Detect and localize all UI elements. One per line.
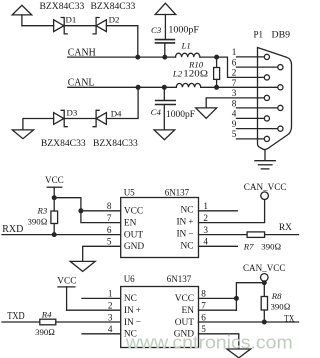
svg-text:1000pF: 1000pF [168, 26, 199, 36]
node junction CAN_VCC rail [262, 280, 267, 285]
svg-text:6: 6 [232, 57, 237, 67]
svg-text:1: 1 [108, 289, 113, 299]
svg-text:5: 5 [232, 129, 237, 139]
svg-text:C3: C3 [151, 25, 162, 35]
wire DB9 shell to earth [264, 150, 266, 160]
svg-text:VCC: VCC [45, 175, 64, 186]
pin 4 stub (U6 NC) [82, 333, 121, 335]
svg-text:7: 7 [201, 301, 206, 311]
wire VCC to U6 pin2 IN+ [67, 309, 121, 311]
svg-text:D4: D4 [111, 109, 122, 119]
power terminal CAN_VCC circle (U6) [261, 274, 269, 282]
pin 9 stub (P1) [237, 128, 279, 130]
node junction pin8/pin7 tie [234, 296, 239, 301]
resistor R8 [261, 297, 267, 311]
wire TXD to R4 [2, 321, 40, 323]
wire L2 to DB9 pin7 [201, 86, 278, 88]
svg-text:U5: U5 [124, 187, 135, 197]
svg-text:BZX84C33: BZX84C33 [93, 138, 138, 148]
power VCC (U6 section) [58, 287, 75, 310]
node junction R8/TX [262, 320, 267, 325]
svg-text:CAN_VCC: CAN_VCC [243, 263, 285, 273]
diode D2 (zener BZX84C33) [93, 18, 106, 34]
pin 4 stub (P1) [237, 117, 265, 119]
wire D3 cathode to D4 cathode [64, 118, 96, 120]
ground E2 (earth triangle up, above C3) [155, 3, 176, 39]
svg-text:1: 1 [203, 201, 208, 211]
svg-text:L2: L2 [172, 69, 183, 79]
wire CAN_VCC circle down to R8 [263, 281, 265, 296]
resistor R4 [40, 319, 56, 325]
node junction R10/CANH [214, 55, 219, 60]
svg-text:BZX84C33: BZX84C33 [40, 1, 85, 11]
svg-text:IN +: IN + [176, 218, 193, 228]
svg-text:R10: R10 [188, 60, 204, 70]
wire R8 to TX line [263, 310, 265, 322]
op-amp U6 optocoupler 6N137 box [121, 287, 199, 348]
svg-text:120Ω: 120Ω [183, 70, 208, 80]
svg-text:9: 9 [232, 119, 237, 129]
svg-text:8: 8 [107, 201, 112, 211]
svg-text:VCC: VCC [57, 275, 76, 286]
P1 pin circles left column [264, 54, 269, 141]
pin 8 stub (P1) [237, 107, 279, 109]
pin 1 stub (P1) [237, 56, 265, 58]
svg-text:NC: NC [180, 242, 193, 252]
diode D1 (zener BZX84C33) [54, 18, 68, 34]
P1 pin circles right column [278, 65, 283, 132]
svg-text:CAN_VCC: CAN_VCC [244, 182, 287, 192]
connector P1 DB9 body [258, 48, 292, 150]
svg-text:3: 3 [108, 312, 113, 322]
op-amp U5 optocoupler 6N137 box [121, 198, 199, 258]
inductor L2 [176, 83, 200, 87]
pin 5 stub (P1) [237, 138, 265, 140]
capacitor C3 [156, 40, 175, 58]
svg-text:R3: R3 [37, 205, 48, 215]
pin 4 stub (U5 NC) [199, 245, 238, 247]
svg-text:2: 2 [232, 68, 237, 78]
wire L1 to CANH corner, down to DB9 pin2 [200, 57, 265, 77]
svg-text:EN: EN [182, 306, 195, 316]
svg-text:1000pF: 1000pF [166, 110, 195, 120]
svg-text:D2: D2 [109, 15, 120, 25]
pin 1 stub (U5 NC) [199, 210, 238, 212]
svg-text:IN −: IN − [176, 230, 193, 240]
node junction C3/CANH [162, 55, 167, 60]
diode D4 (zener BZX84C33) [93, 110, 106, 126]
svg-text:IN +: IN + [124, 306, 141, 316]
svg-text:U6: U6 [124, 274, 135, 284]
svg-text:D1: D1 [66, 14, 77, 24]
wire U5 pin5 GND to earth [83, 246, 121, 261]
svg-text:6N137: 6N137 [165, 187, 190, 197]
wire U6 pin7 EN to tie point [199, 309, 237, 311]
svg-text:BZX84C33: BZX84C33 [91, 1, 136, 11]
wire CANL net [68, 86, 177, 88]
wire D2 anode down to CANH [106, 26, 137, 57]
wire D3 anode to earth [23, 119, 54, 130]
svg-text:VCC: VCC [175, 294, 194, 304]
svg-text:3: 3 [203, 225, 208, 235]
wire VCC to U5 pin7 EN [54, 198, 121, 223]
wire D1 cathode to D2 cathode [64, 25, 96, 27]
wire U5 pin3 to R7 [199, 234, 248, 236]
svg-text:6N137: 6N137 [167, 274, 192, 284]
capacitor C4 [156, 87, 176, 129]
svg-text:6: 6 [201, 312, 206, 322]
svg-text:390Ω: 390Ω [28, 217, 48, 227]
svg-text:8: 8 [232, 98, 237, 108]
ground E7 (earth triangle down, U5 GND) [70, 261, 95, 271]
node junction pin8 tee [78, 208, 83, 213]
ground E1 (earth triangle up, top-left) [12, 5, 32, 25]
resistor R7 [247, 232, 265, 238]
svg-text:www.cntronics.com: www.cntronics.com [125, 333, 293, 353]
svg-text:NC: NC [180, 206, 193, 216]
ground E5 (chassis earth under DB9) [255, 161, 275, 169]
svg-text:8: 8 [201, 289, 206, 299]
svg-text:R8: R8 [271, 291, 282, 301]
svg-text:390Ω: 390Ω [261, 242, 281, 252]
svg-text:6: 6 [107, 225, 112, 235]
wire U6 pin6 OUT to TX [199, 321, 299, 323]
svg-text:2: 2 [108, 301, 113, 311]
svg-text:C4: C4 [151, 107, 162, 117]
svg-text:7: 7 [232, 78, 237, 88]
ground E4 (earth triangle down, left of D3) [12, 130, 33, 139]
svg-text:P1: P1 [254, 30, 264, 40]
wire tie point up to CAN_VCC rail [236, 283, 264, 311]
svg-text:4: 4 [203, 237, 208, 247]
ground E3 (earth triangle down, below C4) [154, 130, 175, 140]
svg-text:3: 3 [232, 88, 237, 98]
node junction R3/RXD [52, 232, 57, 237]
svg-text:D3: D3 [67, 107, 78, 117]
wire RXD to U5 pin6 OUT [2, 234, 121, 236]
svg-text:NC: NC [124, 294, 137, 304]
pin 6 stub (P1) [237, 66, 279, 68]
ground E6 (earth triangle down, DB9 pin3) [196, 108, 217, 118]
pin 3 wire (P1) to earth [206, 98, 264, 108]
resistor R10 [214, 57, 220, 87]
svg-text:7: 7 [107, 213, 112, 223]
svg-text:EN: EN [124, 218, 137, 228]
svg-text:DB9: DB9 [272, 30, 291, 40]
svg-text:R7: R7 [243, 242, 254, 252]
wire R4 to U6 pin3 IN- [56, 321, 121, 323]
node junction R10/CANL [214, 85, 219, 90]
wire R7 to RX [265, 234, 299, 236]
node junction C4/CANL [162, 85, 167, 90]
pin 1 stub (U6 NC) [82, 297, 121, 299]
wire CANH net [68, 56, 176, 58]
svg-text:GND: GND [124, 242, 145, 252]
power terminal CAN_VCC circle (U5) [261, 192, 269, 200]
node junction VCC/R3 [52, 195, 57, 200]
wire D4 anode up to CANL [106, 87, 138, 118]
svg-text:OUT: OUT [124, 230, 144, 240]
svg-text:5: 5 [107, 237, 112, 247]
svg-text:R4: R4 [41, 309, 52, 319]
wire U6 pin8 VCC to tie point [199, 297, 237, 299]
wire to U5 pin8 VCC [81, 210, 121, 212]
svg-text:4: 4 [232, 109, 237, 119]
power VCC (U5 section) [47, 187, 62, 198]
resistor R3 [51, 198, 58, 235]
ground E8 (earth triangle down, U6 GND) [227, 349, 251, 358]
wire U6 pin5 GND to earth [199, 334, 239, 349]
node junction D2/CANH [135, 55, 140, 60]
node junction D4/CANL [136, 85, 141, 90]
inductor L1 [176, 53, 200, 57]
wire CAN_VCC to U5 pin2 IN+ [199, 200, 265, 223]
svg-text:2: 2 [203, 213, 208, 223]
svg-text:TXD: TXD [7, 311, 25, 322]
svg-text:1: 1 [232, 47, 237, 57]
svg-text:OUT: OUT [175, 318, 195, 328]
diode D3 (zener BZX84C33) [54, 110, 68, 126]
wire E1 to D1 anode [22, 25, 54, 27]
svg-text:390Ω: 390Ω [35, 327, 55, 337]
svg-text:TX: TX [284, 314, 294, 325]
svg-text:IN −: IN − [124, 318, 141, 328]
svg-text:RX: RX [279, 222, 292, 233]
svg-text:BZX84C33: BZX84C33 [41, 138, 86, 148]
svg-text:VCC: VCC [124, 207, 143, 217]
svg-text:RXD: RXD [2, 224, 23, 235]
svg-text:L1: L1 [181, 41, 191, 51]
svg-text:390Ω: 390Ω [271, 301, 291, 311]
svg-text:4: 4 [108, 324, 113, 334]
